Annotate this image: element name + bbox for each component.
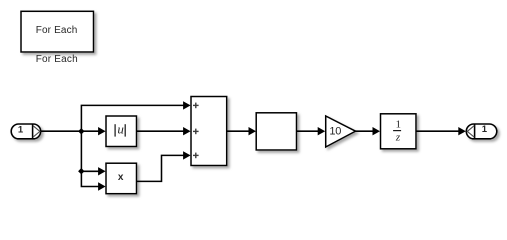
arrowhead into Sum input 3 [183, 151, 191, 159]
wire junction to Product input 1 [81, 170, 99, 172]
svg-text:10: 10 [329, 126, 341, 138]
svg-text:1: 1 [18, 124, 24, 135]
inport chevron [33, 126, 40, 138]
inport divider [32, 124, 34, 138]
arrowhead into Unit Delay [373, 127, 381, 135]
arrowhead into Abs [98, 127, 106, 135]
svg-text:1: 1 [482, 124, 488, 135]
outport 1 [466, 124, 497, 139]
Subsystem block (empty) [256, 113, 296, 150]
inport 1 [11, 124, 41, 139]
arrowhead into Subsystem [249, 127, 257, 135]
Gain block triangle [326, 116, 356, 147]
junction node lower [78, 168, 84, 174]
wire inport to Abs [41, 130, 100, 132]
arrowhead into Gain [318, 127, 326, 135]
svg-text:x: x [118, 172, 124, 183]
wire Gain to Unit Delay [355, 130, 374, 132]
arrowhead into outport [458, 127, 466, 135]
arrowhead into Sum input 2 [183, 127, 191, 135]
arrowhead into Product input 2 [98, 182, 106, 190]
Sum plus sign 1 [193, 103, 199, 109]
Abs block |u| [106, 116, 137, 147]
wire Product to Sum input 3 [137, 155, 185, 181]
For Each subsystem block [21, 11, 94, 52]
Sum plus sign 2 [193, 129, 199, 135]
wire branch down [81, 131, 99, 186]
wire Subsystem to Gain [297, 130, 320, 132]
arrowhead into Product input 1 [98, 167, 106, 175]
Sum block [191, 97, 227, 166]
Abs block text |u| [115, 121, 125, 136]
svg-text:u: u [117, 121, 124, 136]
outport chevron [467, 126, 474, 138]
Unit Delay fraction bar [393, 130, 401, 132]
outport divider [474, 124, 476, 138]
junction node upper [78, 128, 84, 134]
svg-text:For Each: For Each [36, 54, 78, 65]
wire Sum to Subsystem [227, 130, 250, 132]
svg-text:z: z [395, 131, 401, 143]
Unit Delay block [381, 114, 417, 149]
Product block x [106, 163, 137, 194]
wire Unit Delay to outport [416, 130, 460, 132]
svg-text:1: 1 [396, 119, 402, 131]
svg-text:For Each: For Each [36, 25, 78, 36]
wire Abs to Sum [137, 130, 185, 132]
arrowhead into Sum input 1 [183, 101, 191, 109]
Sum plus sign 3 [193, 153, 199, 159]
wire branch up [81, 105, 184, 131]
